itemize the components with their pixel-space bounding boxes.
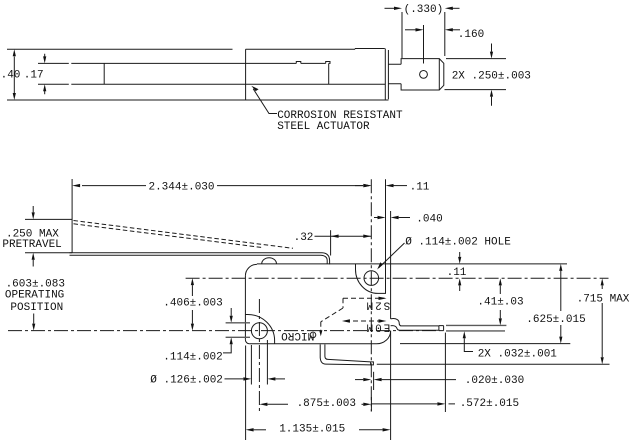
internal contact circle (310, 332, 316, 338)
dimension .40 (13, 57, 15, 94)
lever right step (328, 63, 330, 84)
dia .126 leader arrows (225, 378, 244, 380)
svg-text:.11: .11 (410, 181, 430, 193)
body bottom-left corner (245, 340, 249, 344)
mounting boss around mounting hole (245, 315, 274, 344)
hole label leader (379, 243, 405, 268)
body bottom-right corner (377, 331, 391, 344)
.32 dim (330, 230, 332, 255)
side terminal blade (400, 326, 439, 330)
svg-text:PRETRAVEL: PRETRAVEL (2, 239, 61, 251)
svg-text:2X .250±.003: 2X .250±.003 (452, 70, 531, 82)
blade tip box (439, 326, 444, 331)
dimension .17 (44, 54, 46, 95)
housing top edge (246, 48, 385, 51)
svg-text:POSITION: POSITION (10, 302, 63, 314)
dashed lever free position (74, 221, 294, 249)
svg-text:.572±.015: .572±.015 (460, 398, 519, 410)
lever tip extension tick (373, 372, 375, 390)
.715 dim (601, 285, 603, 289)
svg-text:.160: .160 (458, 29, 484, 41)
lever notch 1 (296, 62, 301, 64)
.41 dim (499, 285, 501, 294)
.040 dim (374, 217, 378, 219)
svg-text:.020±.030: .020±.030 (465, 375, 524, 387)
lever notch 2 (326, 62, 330, 64)
.11 top dim (355, 185, 363, 187)
2X .032 leader (464, 338, 473, 351)
.572 dim (371, 403, 455, 405)
lever inner joint line (103, 63, 105, 84)
body top edge / extension to right (257, 263, 567, 265)
horizontal centerline through pivot hole (186, 277, 609, 279)
blade top extension (446, 325, 506, 331)
lever bottom edge (38, 83, 385, 85)
body bottom extension line (400, 343, 570, 345)
dimension (.330) arrows (385, 7, 396, 9)
vertical centerline pivot (370, 179, 372, 411)
terminal tab bend line (438, 59, 440, 90)
leaf tip reference line (377, 363, 610, 365)
.114 extension lines (226, 323, 250, 338)
pretravel upper line (25, 218, 72, 220)
part bottom outline (7, 99, 389, 101)
side terminal hook (391, 319, 401, 326)
svg-text:STEEL ACTUATOR: STEEL ACTUATOR (277, 121, 370, 133)
.406 dim (191, 285, 193, 296)
dimension .160 center extension (423, 25, 425, 64)
actuator top outline (7, 48, 233, 50)
housing left edge (245, 49, 247, 100)
svg-text:2X .032±.001: 2X .032±.001 (478, 348, 558, 360)
leaf lever tip (371, 362, 374, 365)
leaf spring lever under body (320, 344, 370, 365)
svg-text:1.135±.015: 1.135±.015 (279, 424, 345, 436)
dimension (.330) extension lines (402, 12, 445, 58)
svg-text:.40: .40 (1, 70, 21, 82)
svg-text:.625±.015: .625±.015 (526, 314, 585, 326)
svg-text:E0M: E0M (364, 320, 390, 332)
vertical centerline mounting hole (258, 299, 260, 412)
.875 dim (267, 403, 288, 405)
internal mechanism dashed box (343, 297, 385, 299)
svg-text:.41±.03: .41±.03 (477, 297, 523, 309)
mounting hole (251, 323, 267, 339)
svg-text:Ø .126±.002: Ø .126±.002 (150, 375, 223, 387)
lever raised left edge (385, 179, 387, 264)
solid lever operating position (70, 253, 330, 265)
2.344 dim (71, 179, 73, 253)
dimension .160 arrows (405, 29, 416, 31)
terminal tab outline (401, 59, 444, 90)
lever top edge (38, 62, 326, 64)
body bottom edge (249, 343, 376, 345)
svg-text:.406±.003: .406±.003 (163, 298, 222, 310)
housing right double edge (385, 49, 388, 101)
body left edge extension down (245, 346, 247, 441)
plunger dome (262, 258, 277, 264)
corrosion label leader (253, 89, 277, 114)
svg-text:.040: .040 (416, 213, 442, 225)
svg-text:.11: .11 (447, 267, 467, 279)
.11 right dim arrows (459, 252, 461, 257)
svg-text:.715 MAX: .715 MAX (577, 294, 630, 306)
.625 dim (560, 271, 562, 311)
terminal hole (top view) (420, 71, 428, 79)
pretravel arrows (32, 206, 34, 212)
svg-text:2.344±.030: 2.344±.030 (148, 181, 214, 193)
svg-text:.32: .32 (294, 232, 314, 244)
.020 dim (355, 379, 363, 381)
hinge boss around pivot hole (355, 264, 385, 294)
svg-text:MICRO: MICRO (281, 329, 314, 341)
dimension 2X .250 extension lines (445, 59, 507, 90)
dimension 2X .250 arrows (491, 44, 493, 52)
svg-text:.603±.083: .603±.083 (6, 278, 65, 290)
body right edge extension to bottom dims (390, 331, 392, 440)
pivot hole (364, 271, 379, 286)
svg-text:.875±.003: .875±.003 (297, 398, 356, 410)
pretravel lower line (25, 252, 72, 254)
horizontal centerline through mounting hole (8, 330, 437, 332)
1.135 dim (254, 429, 266, 431)
svg-text:.17: .17 (24, 70, 44, 82)
body right edge (390, 211, 392, 319)
body left edge (244, 276, 246, 340)
svg-text:Ø .114±.002 HOLE: Ø .114±.002 HOLE (405, 236, 511, 248)
operating position arrow (33, 314, 35, 324)
body top-left corner (245, 264, 257, 276)
svg-text:.114±.002: .114±.002 (163, 352, 222, 364)
svg-text:OPERATING: OPERATING (5, 290, 64, 302)
mounting hole tangent extensions (250, 345, 252, 385)
svg-text:S2M: S2M (364, 299, 390, 311)
svg-text:(.330): (.330) (404, 4, 444, 16)
terminal neck (388, 64, 401, 84)
.114 dim arrows (230, 308, 232, 316)
internal dashed line to terminal (345, 320, 385, 322)
